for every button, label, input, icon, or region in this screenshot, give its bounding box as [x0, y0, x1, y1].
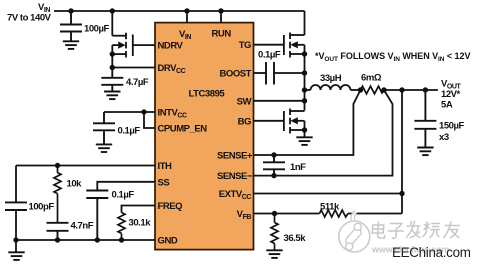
node junction EXTVCC: [399, 191, 404, 196]
wire BOOST: [254, 72, 305, 74]
node junction INTVCC: [141, 109, 146, 114]
svg-text:NDRV: NDRV: [158, 41, 184, 52]
capacitor C 4.7nF: [47, 223, 69, 240]
wire SS: [97, 182, 155, 191]
node junction gnd freq: [119, 237, 124, 242]
svg-text:0.1µF: 0.1µF: [112, 190, 135, 201]
resistor R 10k: [54, 166, 61, 223]
node junction CIN: [68, 8, 73, 13]
transistor Q1 NDRV pass FET: [112, 11, 133, 68]
wire SW: [254, 100, 305, 102]
resistor Rsense 6mOhm: [361, 86, 385, 94]
ground G2: [104, 92, 120, 100]
svg-text:33µH: 33µH: [320, 73, 342, 84]
node junction SW: [302, 98, 307, 103]
ground G7: [417, 148, 433, 156]
ground G1: [63, 41, 79, 49]
wire VFB: [254, 213, 403, 215]
resistor R 511k: [320, 210, 349, 217]
svg-text:RUN: RUN: [212, 29, 232, 40]
wire rail corner: [303, 10, 306, 12]
watermark chinese characters: [372, 222, 460, 239]
wire gnd stub: [15, 240, 17, 252]
wire SENSE+ kelvin: [254, 90, 361, 155]
wire VIN rail: [54, 10, 305, 12]
node junction BOOST: [302, 70, 307, 75]
node junction VOUT cap: [423, 87, 428, 92]
node junction Rsense left: [358, 87, 363, 92]
node junction DRVCC: [110, 65, 115, 70]
svg-text:ITH: ITH: [158, 161, 173, 172]
svg-text:100µF: 100µF: [84, 24, 110, 35]
svg-text:CPUMP_EN: CPUMP_EN: [158, 124, 208, 135]
svg-text:SW: SW: [237, 96, 252, 107]
wire SENSE- kelvin: [254, 90, 393, 176]
node junction gnd ss: [95, 237, 100, 242]
svg-text:SENSE+: SENSE+: [217, 151, 253, 162]
capacitor C 100pF: [5, 202, 27, 210]
capacitor CIN 100uF: [60, 11, 82, 41]
svg-text:5A: 5A: [441, 100, 453, 111]
svg-text:BOOST: BOOST: [219, 69, 251, 80]
wire VIN pin drop: [186, 11, 188, 23]
op-amp U1 LTC3895 body: [155, 23, 254, 250]
svg-text:BG: BG: [238, 116, 251, 127]
node junction Q1 source: [110, 51, 115, 56]
wire ITH: [16, 165, 155, 167]
node junction 1nF bottom: [271, 173, 276, 178]
wire FREQ: [122, 206, 156, 213]
svg-text:LTC3895: LTC3895: [189, 89, 226, 100]
transistor Q1 arrow: [118, 42, 125, 49]
wire EXTVCC: [254, 193, 403, 195]
inductor L1 33uH: [305, 85, 361, 90]
svg-text:10k: 10k: [67, 179, 83, 190]
node junction L1 tap: [302, 87, 307, 92]
wire BG: [254, 120, 285, 122]
transistor Q3 arrow: [290, 117, 297, 124]
node junction gnd 10k: [55, 237, 60, 242]
capacitor C 1nF: [263, 155, 285, 176]
transistor Q2 top MOSFET: [284, 11, 305, 58]
transistor Q3 bottom MOSFET: [284, 109, 305, 134]
svg-text:7V to 140V: 7V to 140V: [7, 13, 52, 24]
svg-text:SENSE−: SENSE−: [217, 171, 253, 182]
node junction Q1 drain rail: [110, 8, 115, 13]
node junction Q3 source: [302, 127, 307, 132]
svg-text:x3: x3: [439, 132, 449, 143]
svg-text:30.1k: 30.1k: [129, 218, 152, 229]
wire RUN pin drop: [220, 11, 222, 23]
node junction RUN pin: [218, 8, 223, 13]
svg-text:6mΩ: 6mΩ: [361, 73, 382, 84]
wire VOUT to EXTVCC vertical: [401, 90, 403, 214]
wire TG: [254, 44, 285, 46]
svg-text:FREQ: FREQ: [158, 201, 183, 212]
svg-text:0.1µF: 0.1µF: [118, 126, 141, 137]
svg-text:TG: TG: [239, 40, 251, 51]
watermark logo circle: [339, 212, 370, 252]
node junction VFB: [272, 211, 277, 216]
node junction Q2 source: [302, 51, 307, 56]
svg-text:4.7µF: 4.7µF: [126, 77, 149, 88]
svg-text:0.1µF: 0.1µF: [258, 50, 281, 61]
capacitor C DRVCC 4.7uF: [101, 68, 123, 92]
svg-text:EEChina.com: EEChina.com: [392, 245, 471, 260]
node junction Rsense right: [381, 87, 386, 92]
node junction VOUT extv: [399, 87, 404, 92]
wire NDRV gate lead: [133, 44, 155, 46]
svg-text:12V*: 12V*: [441, 89, 461, 100]
capacitor C BOOST 0.1uF: [266, 62, 274, 85]
ground G6: [266, 250, 282, 258]
wire CPUMP_EN: [144, 112, 155, 128]
svg-text:GND: GND: [158, 236, 178, 247]
node junction 1nF top: [271, 152, 276, 157]
svg-text:1nF: 1nF: [290, 162, 306, 173]
svg-text:4.7nF: 4.7nF: [71, 221, 94, 232]
svg-text:511k: 511k: [320, 202, 340, 213]
resistor R 36.5k: [271, 214, 278, 251]
node junction VIN pin: [184, 8, 189, 13]
wire DRVCC: [112, 67, 155, 69]
capacitor C SS 0.1uF: [86, 191, 108, 241]
capacitor C INTVCC 0.1uF: [93, 112, 115, 144]
ground G4: [8, 252, 24, 260]
node VOUT label: [441, 79, 461, 111]
svg-text:*VOUT FOLLOWS VIN WHEN VIN < 1: *VOUT FOLLOWS VIN WHEN VIN < 12V: [315, 51, 470, 63]
resistor R 30.1k: [118, 213, 125, 241]
node junction ITH branch: [55, 163, 60, 168]
svg-text:36.5k: 36.5k: [284, 233, 307, 244]
ground G3: [96, 144, 112, 152]
wire GND bottom rail: [16, 239, 155, 241]
node VIN label: [7, 2, 52, 24]
wire Q3 source to gnd: [304, 130, 306, 137]
wire left compensation rail: [15, 166, 17, 241]
transistor Q2 arrow: [290, 41, 297, 48]
capacitor C OUT 150uF x3: [414, 90, 436, 147]
wire VOUT rail: [384, 89, 438, 91]
svg-text:SS: SS: [158, 177, 170, 188]
svg-text:150µF: 150µF: [439, 121, 465, 132]
node junction gnd left: [13, 237, 18, 242]
ground G5: [296, 137, 312, 145]
svg-text:100pF: 100pF: [29, 202, 55, 213]
wire INTVCC: [104, 111, 155, 113]
wire SW node vertical: [304, 54, 306, 111]
